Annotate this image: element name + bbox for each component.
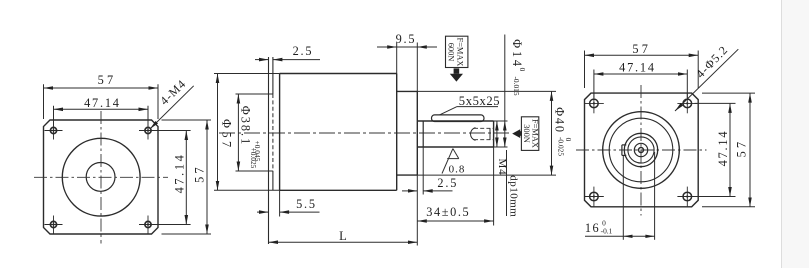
dimension phi38.1 (pilot boss) <box>237 94 239 171</box>
phi14 text carrier line <box>504 35 506 122</box>
dimension 9.5 <box>377 46 437 48</box>
F=MAX 300N box <box>521 117 538 151</box>
dimension 57 right vertical (left view) <box>162 120 212 234</box>
svg-text:0.8: 0.8 <box>449 164 466 176</box>
front flange square plate <box>44 120 159 234</box>
surface roughness 0.8 symbol <box>442 149 453 174</box>
svg-text:-0.025: -0.025 <box>557 137 566 156</box>
svg-text:M4: M4 <box>496 159 508 176</box>
svg-text:57: 57 <box>632 42 651 56</box>
key 5x5x25 profile <box>432 115 485 122</box>
svg-text:57: 57 <box>193 164 207 183</box>
svg-text:F=MAX: F=MAX <box>456 38 465 67</box>
dimension 5.5 (bottom-left) <box>257 211 320 213</box>
hole mouth mark at shaft end <box>489 128 491 139</box>
svg-text:57: 57 <box>98 73 117 87</box>
mounting hole M4 top-right <box>139 122 157 140</box>
rear boss rect <box>397 91 418 175</box>
svg-text:9.5: 9.5 <box>396 32 417 46</box>
label 4-M4 with leader <box>150 86 194 129</box>
mounting face line <box>268 57 270 244</box>
flange front face line (solid bottom) <box>272 171 274 190</box>
svg-text:2.5: 2.5 <box>437 176 458 190</box>
pilot boss top edge + extension <box>236 93 273 95</box>
shaft collar extension down (2.5 dim) <box>422 147 424 195</box>
dimension phi40 (rear boss) <box>551 91 553 175</box>
svg-text:5x5x25: 5x5x25 <box>459 94 500 108</box>
svg-text:2.5: 2.5 <box>293 44 314 58</box>
tapped hole M4 hidden lines <box>474 127 494 129</box>
dimension 47.14 right vertical (left view) <box>155 131 191 225</box>
collar circle phi16 <box>624 133 657 166</box>
dimension 34 +/- 0.5 <box>417 220 493 222</box>
shaft collar step <box>422 121 424 147</box>
svg-text:Φ14: Φ14 <box>510 39 524 69</box>
rear boss bottom extension to phi40 dim <box>417 174 556 176</box>
dimension L (bottom) <box>269 241 418 243</box>
shaft edge extensions right (phi14 dim) <box>494 120 508 122</box>
rear boss circle phi40 <box>603 112 680 189</box>
svg-text:L: L <box>339 229 347 243</box>
svg-text:47.14: 47.14 <box>716 130 730 167</box>
front inner bore circle <box>86 163 115 192</box>
shaft end extension down (34 dim) <box>493 147 495 226</box>
flange front face line (solid top) <box>272 57 274 94</box>
dimension 47.14 right vertical (right view) <box>695 103 736 196</box>
dimension 47.14 top (left view) <box>54 106 149 126</box>
dimension phi57 (body) <box>217 74 219 191</box>
tapped hole circle <box>634 143 647 156</box>
600N axial force arrow <box>454 68 460 73</box>
svg-text:-0.1: -0.1 <box>601 227 613 236</box>
mounting hole M4 bottom-left <box>45 216 63 234</box>
front pilot circle <box>62 138 140 216</box>
rear flange square plate <box>585 93 699 207</box>
300N axial force arrow <box>520 131 522 136</box>
svg-text:Φ38.1: Φ38.1 <box>238 106 252 147</box>
svg-text:47.14: 47.14 <box>173 153 187 194</box>
body top/bottom extension to phi57 dim <box>214 73 280 75</box>
svg-text:47.14: 47.14 <box>619 60 656 74</box>
keyway notch <box>622 145 626 156</box>
boss rear face extensions up and down <box>416 43 418 92</box>
mounting hole M4 top-left <box>45 122 63 140</box>
motor body outline <box>280 74 397 191</box>
mounting hole phi5.2 bottom-right <box>677 187 697 207</box>
dimension phi14 line <box>496 121 498 147</box>
label 4-phi5.2 with leader <box>675 49 738 111</box>
flange front face hidden behind boss <box>272 94 274 171</box>
rear view vertical centerline <box>640 85 642 216</box>
svg-text:5.5: 5.5 <box>296 197 317 211</box>
shaft outline <box>417 121 493 147</box>
rear boss top extension to phi40 dim <box>417 90 556 92</box>
mounting hole phi5.2 top-left <box>584 94 604 114</box>
dimension 57 top (right view) <box>585 51 699 89</box>
dimension 2.5 (collar) <box>402 190 453 192</box>
svg-text:Φ40: Φ40 <box>552 107 566 134</box>
svg-text:0: 0 <box>518 68 527 72</box>
mounting hole phi5.2 bottom-left <box>584 187 604 207</box>
drill point arc <box>471 128 476 141</box>
front view horizontal centerline <box>34 176 168 178</box>
collar chamfer circle <box>628 137 654 163</box>
body front face extension down (5.5 dim) <box>279 190 281 216</box>
svg-text:Φ57: Φ57 <box>220 119 234 151</box>
svg-text:600N: 600N <box>447 43 456 62</box>
mounting hole M4 bottom-right <box>139 216 157 234</box>
label M4 dp10mm <box>506 150 508 216</box>
svg-text:57: 57 <box>734 139 748 158</box>
svg-text:300N: 300N <box>522 124 531 143</box>
dimension 47.14 top (right view) <box>594 70 687 99</box>
front view vertical centerline <box>100 111 102 244</box>
svg-text:+0.025: +0.025 <box>249 148 258 169</box>
dimension 57 right vertical (right view) <box>702 93 755 207</box>
svg-text:dp10mm: dp10mm <box>508 175 520 217</box>
F=MAX 600N box <box>446 36 468 67</box>
dimension 2.5 (flange thickness, top-left) <box>255 59 320 61</box>
pilot boss bottom edge + extension <box>236 170 273 172</box>
label 5x5x25 with leader <box>457 106 498 108</box>
page right margin strip <box>782 0 809 268</box>
side view main centerline <box>219 132 509 134</box>
svg-text:-0.015: -0.015 <box>512 76 521 95</box>
body rear face extension up (9.5 dim) <box>396 43 398 74</box>
svg-text:47.14: 47.14 <box>84 96 121 110</box>
center circle <box>639 148 644 153</box>
mounting hole phi5.2 top-right <box>677 94 697 114</box>
svg-text:16: 16 <box>585 221 600 235</box>
dimension 16 bottom (right view) <box>585 152 655 240</box>
dimension 57 top (left view) <box>44 84 159 119</box>
rear view horizontal centerline <box>576 149 707 151</box>
svg-text:34±0.5: 34±0.5 <box>426 205 470 219</box>
inner circle <box>609 118 673 182</box>
